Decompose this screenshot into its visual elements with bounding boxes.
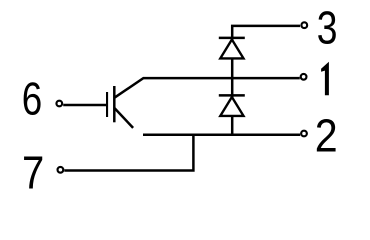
diode D1 triangle	[220, 40, 243, 59]
svg-text:7: 7	[22, 148, 44, 199]
svg-text:2: 2	[315, 110, 338, 162]
transistor IGBT gate bar	[106, 92, 108, 117]
svg-text:3: 3	[317, 2, 338, 54]
wire emitter to pin 2	[143, 134, 300, 137]
wire pin 7 with riser to emitter line	[64, 134, 193, 171]
transistor IGBT body bar	[113, 86, 116, 122]
terminal circle pin 1	[301, 74, 307, 80]
terminal circle pin 6	[56, 101, 62, 107]
terminal circle pin 2	[301, 131, 307, 137]
wire collector diagonal and pin 1 line	[114, 78, 299, 98]
terminal circle pin 7	[58, 167, 64, 173]
terminal circle pin 3	[301, 22, 307, 28]
svg-text:6: 6	[22, 73, 42, 125]
wire emitter diagonal (open end)	[114, 108, 133, 128]
diode D2 triangle	[220, 97, 243, 116]
wire pin 3 and diode stack vertical	[232, 26, 300, 135]
diode D1 cathode bar	[219, 37, 245, 40]
wire gate (pin 6 to gate bar)	[63, 104, 106, 107]
label pin 1	[321, 62, 329, 96]
diode D2 cathode bar	[219, 94, 245, 97]
